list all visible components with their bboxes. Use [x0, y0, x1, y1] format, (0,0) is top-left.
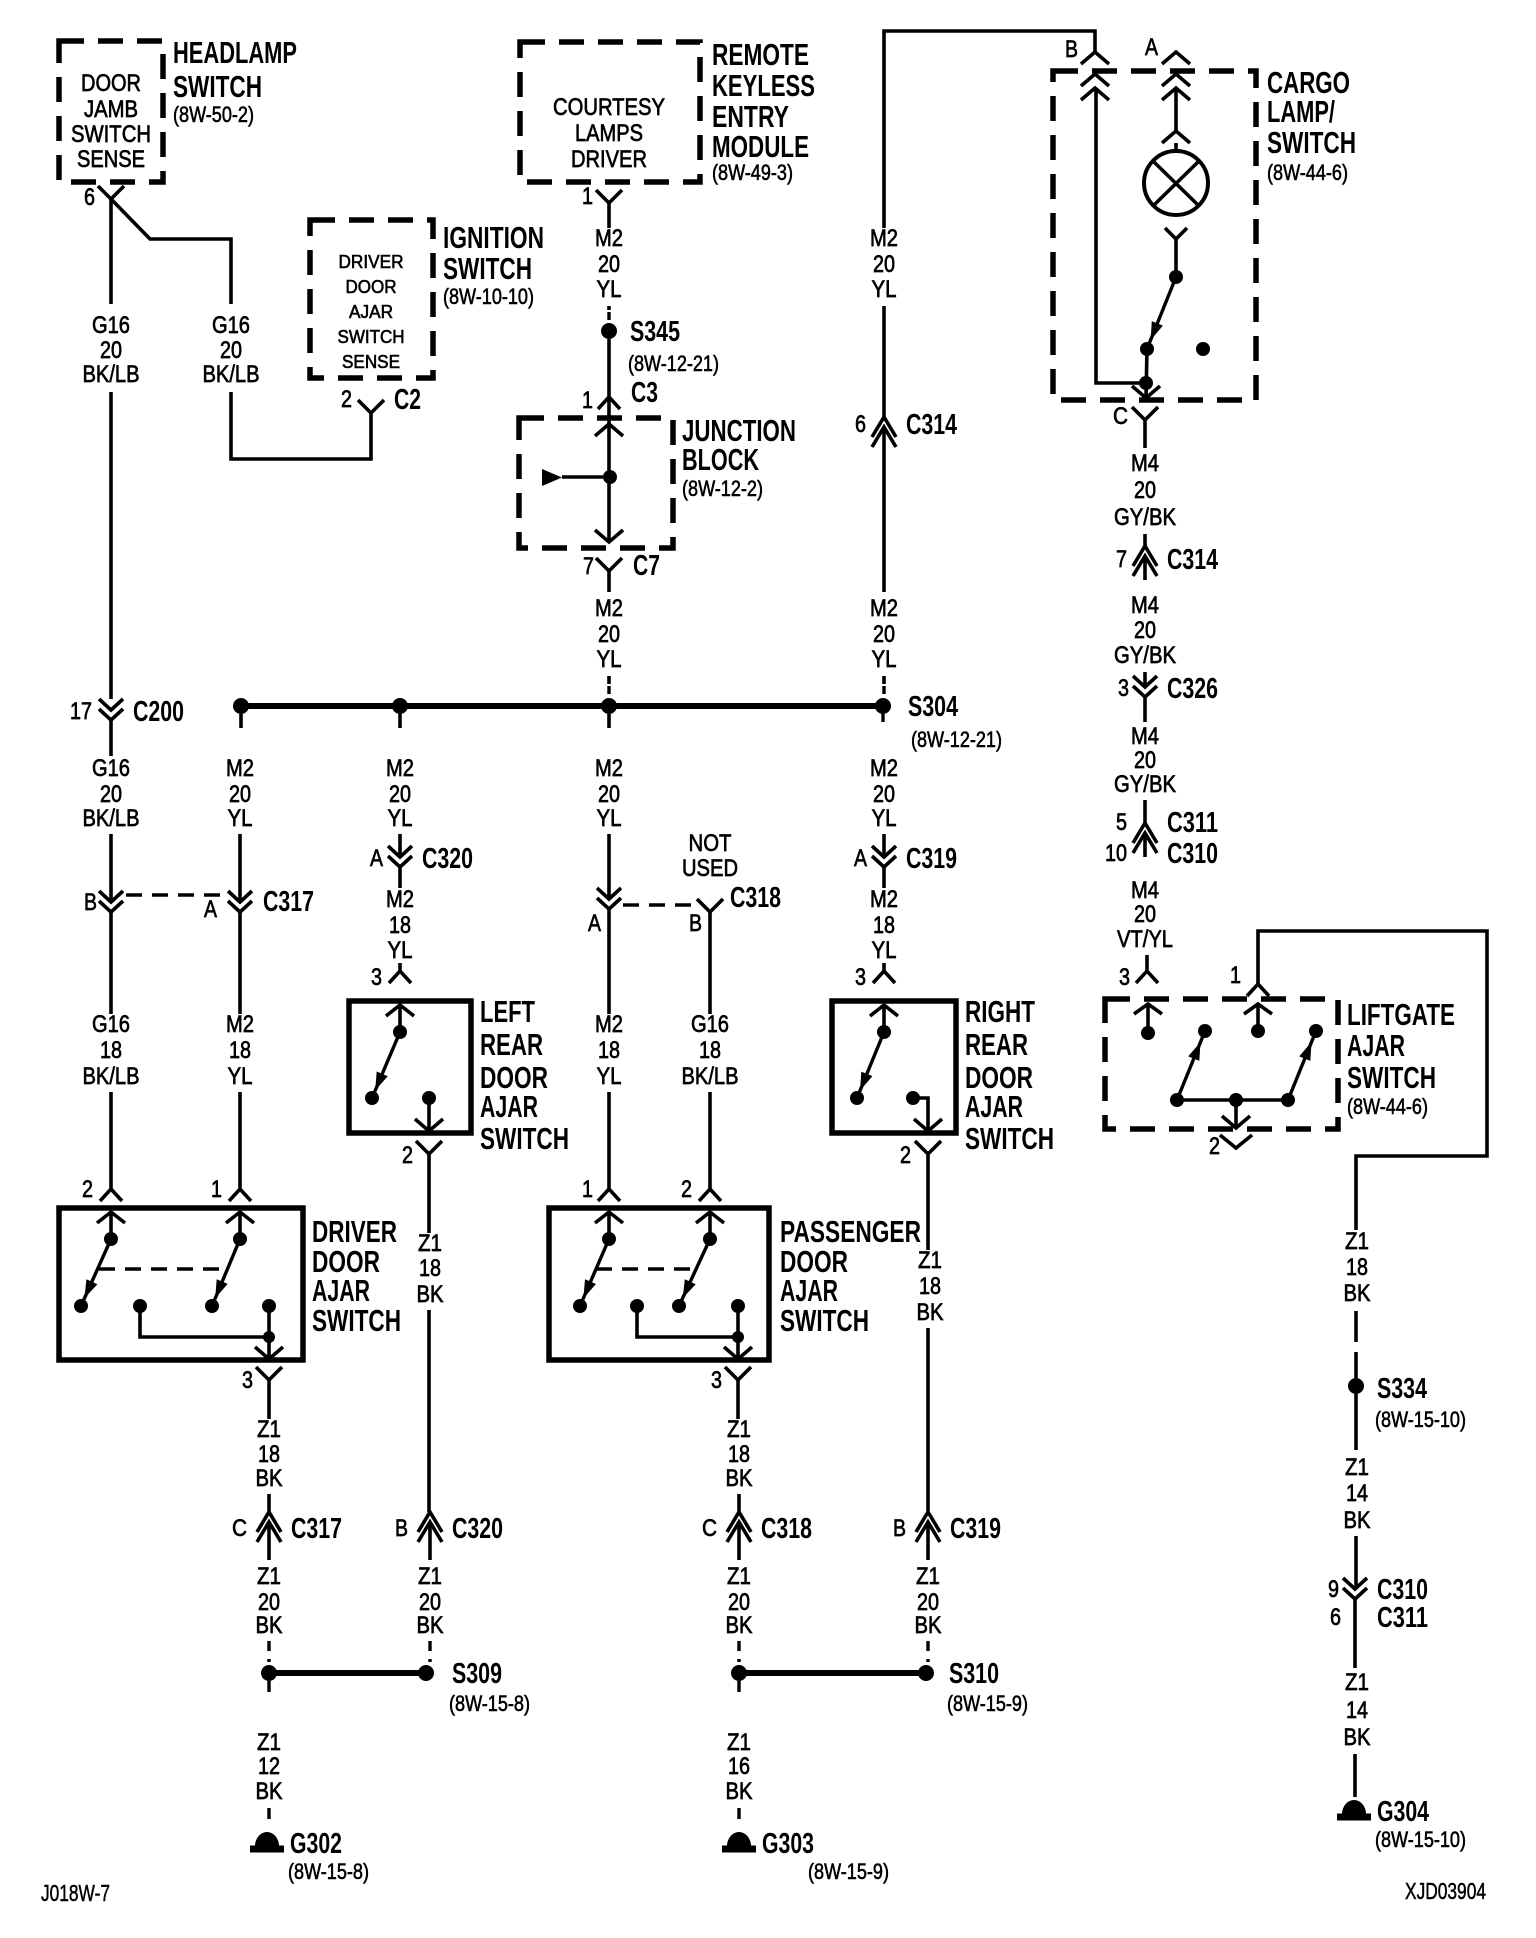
svg-text:B: B — [84, 889, 97, 916]
pin 3 connector below passenger door switch — [711, 1367, 751, 1394]
svg-text:GY/BK: GY/BK — [1114, 642, 1176, 669]
svg-text:(8W-15-10): (8W-15-10) — [1375, 1827, 1466, 1852]
svg-text:C314: C314 — [1167, 544, 1218, 576]
svg-text:YL: YL — [597, 1063, 622, 1090]
wire M2 18 YL from C319-A to right rear door switch pin 3 — [870, 867, 898, 971]
wire M4 20 GY/BK from C326 to connectors C311/C310 — [1114, 697, 1176, 823]
svg-text:BK: BK — [256, 1465, 283, 1492]
cargo switch common node to pin C — [1132, 349, 1160, 398]
svg-text:NOT: NOT — [689, 830, 732, 857]
ground G304 (8W-15-10) — [1337, 1796, 1466, 1852]
cargo switch contact and arm — [1140, 270, 1183, 356]
splice S304 (8W-12-21) — [875, 691, 1002, 752]
svg-text:M2: M2 — [386, 755, 414, 782]
svg-text:YL: YL — [597, 276, 622, 303]
svg-text:M2: M2 — [386, 886, 414, 913]
svg-text:(8W-44-6): (8W-44-6) — [1347, 1094, 1428, 1119]
splice bus wire joining door switch feeds — [241, 703, 883, 709]
svg-text:12: 12 — [258, 1753, 280, 1780]
svg-text:S309: S309 — [452, 1658, 502, 1690]
wire Z1 18 BK from driver switch pin 3 to connector C317-C — [256, 1380, 283, 1512]
svg-text:M4: M4 — [1131, 877, 1159, 904]
wire Z1 14 BK from C311 to ground G304 — [1344, 1617, 1371, 1797]
svg-text:BK: BK — [1344, 1724, 1371, 1751]
wire Z1 18 BK from right rear switch to connector C319-B — [917, 1154, 944, 1512]
svg-text:C318: C318 — [761, 1513, 812, 1545]
svg-text:Z1: Z1 — [418, 1230, 442, 1257]
svg-text:18: 18 — [389, 912, 411, 939]
connector C310 pin 9 / C311 pin 6 (in-line pair) — [1328, 1574, 1428, 1634]
svg-text:LAMP/: LAMP/ — [1267, 94, 1335, 129]
pin 6 connector of headlamp switch — [84, 184, 124, 211]
svg-text:YL: YL — [872, 805, 897, 832]
wire M2 20 YL from keyless module to splice S345 — [595, 203, 623, 324]
connector C318 pin C (in-line) — [702, 1512, 812, 1546]
svg-text:1: 1 — [582, 387, 593, 414]
right rear switch output contact pin 2 — [906, 1091, 942, 1131]
svg-text:18: 18 — [873, 912, 895, 939]
svg-text:SWITCH: SWITCH — [780, 1303, 869, 1338]
connector C318 pin B — [689, 899, 723, 937]
sheet number J018W-7 — [41, 1880, 110, 1906]
wire G16 20 BK/LB branch from pin 6 to ignition switch C2 — [111, 199, 371, 459]
wire M4 20 GY/BK from cargo switch C to connector C314-7 — [1114, 420, 1176, 546]
wire Z1 20 BK from C317-C to splice S309 — [256, 1546, 283, 1662]
svg-text:M4: M4 — [1131, 592, 1159, 619]
pin 2 connector below right rear door switch — [900, 1141, 941, 1169]
svg-text:Z1: Z1 — [727, 1563, 751, 1590]
driver switch pole 1 contact and arm — [74, 1212, 118, 1313]
svg-text:USED: USED — [682, 855, 738, 882]
left rear switch contact and arm — [365, 1005, 407, 1105]
svg-text:SWITCH: SWITCH — [338, 327, 405, 347]
not used label and connector C318 name — [682, 830, 781, 914]
wire M2 20 YL from bus to connector C320-A — [386, 755, 414, 857]
svg-text:Z1: Z1 — [257, 1729, 281, 1756]
svg-text:M2: M2 — [870, 595, 898, 622]
svg-text:1: 1 — [582, 1176, 593, 1203]
svg-text:20: 20 — [229, 781, 251, 808]
svg-text:G16: G16 — [691, 1011, 729, 1038]
passenger switch pole 1 contact and arm — [573, 1212, 616, 1313]
wire Z1 20 BK from C319-B to splice S310 — [915, 1546, 942, 1662]
svg-text:Z1: Z1 — [727, 1416, 751, 1443]
wire M2 20 YL from bus to connector C317-A — [226, 755, 254, 902]
svg-text:G304: G304 — [1377, 1796, 1429, 1828]
svg-text:C318: C318 — [730, 882, 781, 914]
svg-text:G302: G302 — [290, 1828, 342, 1860]
svg-text:BK: BK — [726, 1465, 753, 1492]
svg-text:Z1: Z1 — [1345, 1669, 1369, 1696]
svg-text:AJAR: AJAR — [480, 1089, 538, 1124]
svg-text:Z1: Z1 — [1345, 1454, 1369, 1481]
svg-text:20: 20 — [1134, 477, 1156, 504]
svg-text:LIFTGATE: LIFTGATE — [1347, 997, 1455, 1032]
pin 1 connector of liftgate ajar switch — [1230, 962, 1272, 1014]
liftgate switch arm 2 — [1281, 1024, 1323, 1107]
svg-text:YL: YL — [872, 646, 897, 673]
pin 1 connector of driver door ajar switch — [211, 1176, 254, 1223]
svg-text:REAR: REAR — [965, 1027, 1028, 1062]
connector C7 pin 7 of junction block — [583, 550, 660, 582]
svg-text:B: B — [395, 1515, 408, 1542]
svg-text:Z1: Z1 — [418, 1563, 442, 1590]
connector C320 pin A (in-line) — [370, 843, 473, 875]
connector C314 pin 6 (in-line) — [855, 409, 957, 451]
svg-text:14: 14 — [1346, 1480, 1368, 1507]
cargo switch open contact — [1196, 342, 1210, 356]
svg-text:AJAR: AJAR — [1347, 1028, 1405, 1063]
svg-text:C311: C311 — [1377, 1602, 1428, 1634]
svg-text:SWITCH: SWITCH — [1347, 1060, 1436, 1095]
splice S345 (8W-12-21) — [601, 316, 719, 376]
pin 2 connector below left rear door switch — [402, 1141, 442, 1169]
liftgate switch common bar and output pin 2 — [1177, 1093, 1288, 1128]
svg-text:C2: C2 — [394, 384, 421, 416]
cargo lamp bulb — [1144, 88, 1208, 277]
driver switch common contacts and output to pin 3 — [133, 1299, 283, 1359]
splice S310 bus wire (8W-15-9) — [731, 1658, 1028, 1716]
svg-text:20: 20 — [873, 781, 895, 808]
svg-text:BK: BK — [256, 1612, 283, 1639]
cargo internal wire from pin B to switch common node — [1096, 88, 1146, 383]
svg-text:SWITCH: SWITCH — [71, 121, 151, 148]
svg-text:BK/LB: BK/LB — [203, 361, 260, 388]
wire M4 20 VT/YL from C310 to liftgate ajar switch pin 3 — [1117, 877, 1173, 971]
svg-text:18: 18 — [258, 1441, 280, 1468]
svg-text:A: A — [588, 910, 601, 937]
svg-text:SWITCH: SWITCH — [443, 251, 532, 286]
svg-text:S345: S345 — [630, 316, 680, 348]
connector C319 pin B (in-line) — [893, 1512, 1001, 1546]
svg-text:SWITCH: SWITCH — [480, 1121, 569, 1156]
connector C3 pin 1 of junction block — [582, 377, 658, 414]
svg-text:MODULE: MODULE — [712, 129, 809, 164]
svg-text:3: 3 — [711, 1367, 722, 1394]
svg-text:M2: M2 — [226, 1011, 254, 1038]
svg-text:1: 1 — [582, 183, 593, 210]
drawing number XJD03904 — [1405, 1878, 1486, 1904]
svg-text:(8W-15-9): (8W-15-9) — [808, 1859, 889, 1884]
svg-text:18: 18 — [229, 1037, 251, 1064]
svg-text:C314: C314 — [906, 409, 957, 441]
cargo lamp/switch box (8W-44-6) — [1053, 65, 1356, 400]
svg-text:(8W-12-2): (8W-12-2) — [682, 476, 763, 501]
wire Z1 14 BK from S334 to connector C310/C311 — [1344, 1394, 1371, 1589]
svg-text:BK: BK — [726, 1778, 753, 1805]
svg-text:18: 18 — [598, 1037, 620, 1064]
svg-text:(8W-15-8): (8W-15-8) — [449, 1691, 530, 1716]
wire M2 18 YL from C317-A to driver door switch pin 1 — [226, 912, 254, 1189]
svg-text:C319: C319 — [906, 843, 957, 875]
svg-text:Z1: Z1 — [916, 1563, 940, 1590]
svg-text:9: 9 — [1328, 1576, 1339, 1603]
svg-text:18: 18 — [728, 1441, 750, 1468]
svg-text:GY/BK: GY/BK — [1114, 771, 1176, 798]
svg-text:A: A — [854, 845, 867, 872]
svg-text:AJAR: AJAR — [965, 1089, 1023, 1124]
cargo switch pin B connector at box edge — [1065, 36, 1109, 100]
svg-text:G16: G16 — [92, 1011, 130, 1038]
svg-text:RIGHT: RIGHT — [965, 994, 1035, 1029]
svg-text:REAR: REAR — [480, 1027, 543, 1062]
svg-text:YL: YL — [597, 805, 622, 832]
connector C pin of cargo lamp switch — [1113, 403, 1158, 430]
pin 2 connector below liftgate switch — [1209, 1133, 1252, 1160]
right rear switch contact and arm — [850, 1005, 891, 1105]
splice S334 (8W-15-10) — [1348, 1373, 1466, 1432]
svg-text:C317: C317 — [291, 1513, 342, 1545]
svg-text:M2: M2 — [595, 595, 623, 622]
svg-text:18: 18 — [919, 1273, 941, 1300]
remote keyless entry module box (8W-49-3) — [520, 37, 815, 185]
pin 1 connector of keyless entry module — [582, 183, 622, 210]
svg-text:(8W-15-10): (8W-15-10) — [1375, 1407, 1466, 1432]
wire M2 20 YL from S304 to connector C319-A — [870, 755, 898, 857]
svg-text:B: B — [893, 1515, 906, 1542]
svg-text:B: B — [1065, 36, 1078, 63]
connector C317 pin A (in-line, dashed pair with B) — [204, 886, 314, 923]
svg-text:18: 18 — [419, 1255, 441, 1282]
svg-text:20: 20 — [220, 337, 242, 364]
wire Z1 20 BK from C320-B to splice S309 — [417, 1546, 444, 1662]
svg-text:20: 20 — [1134, 617, 1156, 644]
svg-text:20: 20 — [598, 251, 620, 278]
svg-text:(8W-44-6): (8W-44-6) — [1267, 160, 1348, 185]
svg-text:YL: YL — [228, 1063, 253, 1090]
passenger door ajar switch box — [549, 1208, 921, 1360]
svg-text:20: 20 — [1134, 901, 1156, 928]
svg-text:M2: M2 — [595, 225, 623, 252]
svg-text:C320: C320 — [452, 1513, 503, 1545]
svg-text:6: 6 — [855, 411, 866, 438]
svg-text:BK: BK — [1344, 1280, 1371, 1307]
cargo switch pin A connector at box edge — [1145, 34, 1190, 100]
pin 3 connector of liftgate ajar switch — [1119, 964, 1162, 1014]
svg-text:18: 18 — [1346, 1254, 1368, 1281]
svg-text:3: 3 — [855, 964, 866, 991]
svg-text:BK/LB: BK/LB — [682, 1063, 739, 1090]
svg-text:M2: M2 — [595, 1011, 623, 1038]
wire G16 18 BK/LB from C317-B to driver door switch pin 2 — [83, 912, 140, 1189]
wire Z1 18 BK from left rear switch to connector C320-B — [417, 1154, 444, 1512]
svg-text:BK: BK — [417, 1612, 444, 1639]
svg-text:C317: C317 — [263, 886, 314, 918]
svg-text:20: 20 — [389, 781, 411, 808]
svg-text:J018W-7: J018W-7 — [41, 1880, 110, 1906]
svg-text:20: 20 — [598, 781, 620, 808]
svg-text:(8W-12-21): (8W-12-21) — [911, 727, 1002, 752]
svg-text:Z1: Z1 — [257, 1416, 281, 1443]
liftgate ajar switch box (8W-44-6) — [1105, 997, 1455, 1129]
passenger switch pole 2 contact and arm — [672, 1212, 717, 1313]
splice S309 bus wire (8W-15-8) — [261, 1658, 530, 1716]
wire from S345 to junction block connector C3 — [607, 339, 611, 397]
svg-text:C200: C200 — [133, 696, 184, 728]
connector C311 pin 5 / C310 pin 10 (in-line pair) — [1105, 807, 1218, 870]
svg-text:SWITCH: SWITCH — [1267, 125, 1356, 160]
svg-text:(8W-49-3): (8W-49-3) — [712, 160, 793, 185]
dashed connector link C318 A to B — [623, 903, 696, 906]
pin 2 connector of driver door ajar switch — [82, 1176, 125, 1223]
svg-text:2: 2 — [402, 1142, 413, 1169]
svg-text:17: 17 — [70, 698, 92, 725]
junction block internal bus bar with feed arrow and node — [542, 397, 623, 542]
svg-text:SWITCH: SWITCH — [312, 1303, 401, 1338]
wire M2 20 YL from C314 to splice S304 — [870, 451, 898, 698]
svg-text:(8W-10-10): (8W-10-10) — [443, 284, 534, 309]
svg-text:Z1: Z1 — [727, 1729, 751, 1756]
svg-text:G16: G16 — [92, 312, 130, 339]
svg-text:BK: BK — [1344, 1507, 1371, 1534]
svg-text:2: 2 — [341, 386, 352, 413]
right rear door ajar switch box — [832, 994, 1054, 1156]
driver switch pole 2 contact and arm — [205, 1212, 247, 1313]
svg-text:18: 18 — [100, 1037, 122, 1064]
svg-text:DRIVER: DRIVER — [571, 146, 647, 173]
svg-text:3: 3 — [242, 1367, 253, 1394]
svg-text:1: 1 — [1230, 962, 1241, 989]
svg-text:7: 7 — [1116, 546, 1127, 573]
svg-text:M4: M4 — [1131, 450, 1159, 477]
wire Z1 18 BK from passenger switch pin 3 to connector C318-C — [726, 1380, 753, 1512]
svg-text:S310: S310 — [949, 1658, 999, 1690]
svg-text:G16: G16 — [212, 312, 250, 339]
svg-text:C7: C7 — [633, 550, 660, 582]
pin 3 connector of right rear door ajar switch — [855, 964, 898, 1016]
svg-text:A: A — [1145, 34, 1158, 61]
svg-text:A: A — [370, 845, 383, 872]
svg-text:7: 7 — [583, 553, 594, 580]
svg-text:YL: YL — [597, 646, 622, 673]
svg-text:2: 2 — [681, 1176, 692, 1203]
svg-text:S304: S304 — [908, 691, 958, 723]
passenger switch common contacts and output to pin 3 — [630, 1299, 752, 1359]
svg-text:C: C — [702, 1515, 717, 1542]
wire M4 20 GY/BK from C314 to connector C326-3 — [1114, 592, 1176, 687]
svg-text:BK/LB: BK/LB — [83, 361, 140, 388]
svg-text:COURTESY: COURTESY — [553, 94, 665, 121]
svg-text:SENSE: SENSE — [77, 146, 145, 173]
wire G16 20 BK/LB from pin 6 (left vertical) — [83, 199, 140, 699]
svg-text:G16: G16 — [92, 755, 130, 782]
passenger switch mechanical link (dashed) — [596, 1267, 696, 1270]
svg-text:XJD03904: XJD03904 — [1405, 1878, 1486, 1904]
ground G302 (8W-15-8) — [250, 1828, 369, 1884]
svg-text:A: A — [204, 896, 217, 923]
wire from liftgate pin 1 elbow to Z1 column — [1258, 931, 1487, 1230]
svg-text:BK: BK — [915, 1612, 942, 1639]
wire G16 20 BK/LB from C200 to connector C317-B — [83, 720, 140, 902]
svg-text:B: B — [689, 910, 702, 937]
connector C2 pin 2 of ignition switch — [341, 384, 421, 416]
svg-text:LEFT: LEFT — [480, 994, 535, 1029]
svg-text:SWITCH: SWITCH — [965, 1121, 1054, 1156]
svg-text:YL: YL — [388, 805, 413, 832]
wire M2 18 YL from C320-A to left rear door switch pin 3 — [386, 867, 414, 971]
connector C314 pin 7 (in-line) — [1116, 544, 1218, 580]
liftgate switch input contacts — [1141, 1004, 1265, 1040]
svg-text:C326: C326 — [1167, 673, 1218, 705]
svg-text:20: 20 — [873, 621, 895, 648]
wire G16 18 BK/LB from C318-B to passenger door switch pin 2 — [682, 912, 739, 1189]
svg-text:REMOTE: REMOTE — [712, 37, 809, 72]
wire M2 20 YL from C7 to splice S304 bus — [595, 571, 623, 698]
ignition switch box (8W-10-10) — [310, 220, 544, 378]
left rear switch output contact pin 2 — [415, 1091, 443, 1131]
svg-text:C: C — [232, 1515, 247, 1542]
svg-text:16: 16 — [728, 1753, 750, 1780]
svg-text:M2: M2 — [595, 755, 623, 782]
svg-text:IGNITION: IGNITION — [443, 220, 544, 255]
driver door ajar switch box — [59, 1208, 401, 1360]
svg-text:(8W-50-2): (8W-50-2) — [173, 102, 254, 127]
svg-text:2: 2 — [900, 1142, 911, 1169]
connector C200 pin 17 (in-line) — [70, 696, 184, 728]
headlamp switch box (8W-50-2) — [59, 35, 297, 182]
wire M2 18 YL from C318-A to passenger door switch pin 1 — [595, 909, 623, 1189]
connector C319 pin A (in-line) — [854, 843, 957, 875]
wire M2 20 YL from cargo lamp switch pin B down to S304 — [870, 31, 1095, 417]
driver switch mechanical link (dashed) — [99, 1267, 227, 1270]
svg-text:5: 5 — [1116, 809, 1127, 836]
svg-text:SWITCH: SWITCH — [173, 69, 262, 104]
svg-text:2: 2 — [82, 1176, 93, 1203]
svg-text:C: C — [1113, 403, 1128, 430]
svg-text:(8W-12-21): (8W-12-21) — [628, 351, 719, 376]
svg-text:AJAR: AJAR — [349, 302, 393, 322]
svg-text:LAMPS: LAMPS — [575, 120, 643, 147]
svg-text:BK: BK — [917, 1299, 944, 1326]
svg-text:VT/YL: VT/YL — [1117, 926, 1173, 953]
connector C318 pin A (in-line, not used pair) — [588, 888, 621, 937]
svg-text:BK/LB: BK/LB — [83, 805, 140, 832]
svg-text:18: 18 — [699, 1037, 721, 1064]
svg-text:Z1: Z1 — [257, 1563, 281, 1590]
svg-text:BK: BK — [256, 1778, 283, 1805]
pin 3 connector below driver door switch — [242, 1367, 282, 1394]
junction block box (8W-12-2) — [519, 413, 796, 548]
svg-text:M2: M2 — [870, 225, 898, 252]
svg-text:1: 1 — [211, 1176, 222, 1203]
svg-text:YL: YL — [872, 937, 897, 964]
bus junction node (passenger feed) — [601, 698, 617, 728]
svg-text:GY/BK: GY/BK — [1114, 504, 1176, 531]
svg-text:YL: YL — [388, 937, 413, 964]
left rear door ajar switch box — [349, 994, 569, 1156]
svg-text:YL: YL — [228, 805, 253, 832]
svg-text:BK: BK — [417, 1281, 444, 1308]
svg-text:DOOR: DOOR — [81, 70, 141, 97]
svg-text:C320: C320 — [422, 843, 473, 875]
svg-text:C319: C319 — [950, 1513, 1001, 1545]
svg-text:M2: M2 — [870, 755, 898, 782]
svg-text:20: 20 — [598, 621, 620, 648]
svg-text:3: 3 — [1118, 675, 1129, 702]
svg-text:BK: BK — [726, 1612, 753, 1639]
svg-text:BLOCK: BLOCK — [682, 442, 759, 477]
dashed connector link C317 B to A — [126, 893, 227, 896]
svg-text:6: 6 — [84, 184, 95, 211]
bus junction node (left rear feed) — [392, 698, 408, 728]
svg-text:20: 20 — [1134, 747, 1156, 774]
svg-text:14: 14 — [1346, 1697, 1368, 1724]
svg-text:20: 20 — [100, 781, 122, 808]
svg-text:HEADLAMP: HEADLAMP — [173, 35, 297, 70]
svg-text:BK/LB: BK/LB — [83, 1063, 140, 1090]
svg-text:YL: YL — [872, 276, 897, 303]
pin 1 connector of passenger door ajar switch — [582, 1176, 623, 1223]
